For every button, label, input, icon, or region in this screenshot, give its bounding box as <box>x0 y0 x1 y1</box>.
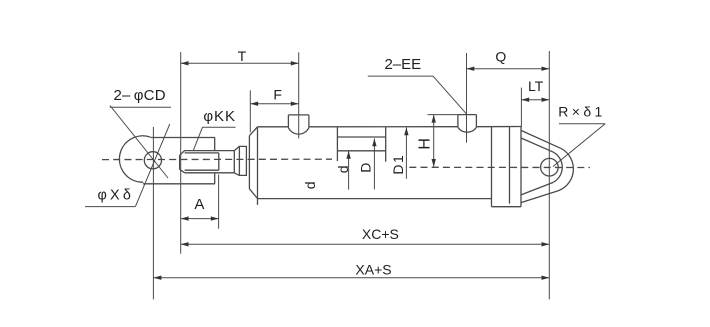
svg-text:XC+S: XC+S <box>362 226 399 242</box>
centerline main axis <box>102 158 332 160</box>
svg-text:F: F <box>273 87 282 103</box>
extension line rod face <box>180 52 182 254</box>
port boss left <box>288 115 309 134</box>
dimension T <box>181 62 299 64</box>
dimension Q <box>467 68 550 70</box>
rod eye outer arc <box>119 136 150 182</box>
cylinder barrel bottom <box>258 198 492 200</box>
leader phiXdelta <box>135 124 169 207</box>
port boss right <box>458 115 477 133</box>
rod eye plate <box>143 138 215 184</box>
label underline RxDelta1 <box>559 123 605 125</box>
extension line LT left <box>520 88 522 128</box>
dimension A <box>181 218 219 220</box>
extension line thread end <box>218 175 220 229</box>
dimension D arrow <box>373 139 375 190</box>
port left center line <box>298 52 300 138</box>
svg-text:T: T <box>238 48 247 64</box>
clevis bracket outer <box>521 130 573 202</box>
rod flare <box>234 146 239 175</box>
threaded rod phiKK <box>180 151 235 173</box>
leader 2-EE <box>433 76 467 114</box>
rod eye hole <box>144 152 161 169</box>
label underline phiXdelta <box>85 206 135 208</box>
dimension D1 arrow <box>405 128 407 179</box>
clevis pin vertical extension line <box>548 51 550 299</box>
clevis bracket inner <box>521 138 562 195</box>
dimension XC+S <box>181 243 550 245</box>
label underline phiKK <box>203 126 236 128</box>
svg-text:LT: LT <box>528 78 544 94</box>
centerline right segment <box>409 166 590 168</box>
svg-text:H: H <box>417 138 434 150</box>
cylinder head gland <box>249 127 257 205</box>
leader 2-phiCD <box>110 106 168 179</box>
dimension LT <box>521 99 549 101</box>
dimension H extension <box>428 114 458 116</box>
svg-text:Q: Q <box>495 48 506 64</box>
svg-text:A: A <box>194 196 204 213</box>
extension line F left <box>249 90 251 132</box>
dimension F <box>250 103 298 105</box>
svg-text:φXδ: φXδ <box>98 188 135 204</box>
cushion sleeve detail <box>337 127 385 162</box>
end cap flange <box>492 127 522 207</box>
rod eye vertical extension line <box>152 127 154 300</box>
clevis pin hole <box>541 158 559 176</box>
leader phiKK <box>193 127 202 150</box>
dimension XA+S <box>154 277 550 279</box>
svg-text:φKK: φKK <box>203 108 236 125</box>
svg-text:d: d <box>335 166 351 174</box>
port right center line <box>466 53 468 143</box>
leader RxDelta1 <box>553 124 605 167</box>
svg-text:2–EE: 2–EE <box>384 56 421 73</box>
svg-text:R×δ1: R×δ1 <box>558 104 605 120</box>
label underline 2-EE <box>368 75 433 77</box>
cylinder barrel top <box>258 126 522 128</box>
svg-text:XA+S: XA+S <box>355 261 391 277</box>
svg-text:2– φCD: 2– φCD <box>113 87 165 104</box>
svg-text:D: D <box>357 163 373 173</box>
rod collar <box>239 146 246 175</box>
svg-text:D1: D1 <box>390 154 406 175</box>
label underline 2-phiCD <box>110 106 171 108</box>
svg-text:d: d <box>302 181 318 189</box>
dimension H <box>433 115 435 167</box>
dimension d arrow <box>348 151 350 190</box>
